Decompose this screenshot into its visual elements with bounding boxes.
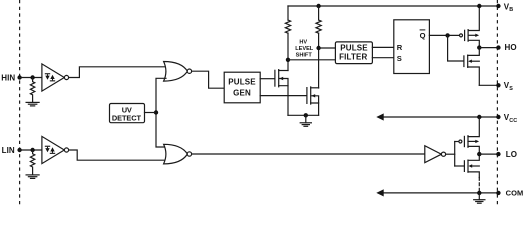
node HO pin [496, 45, 500, 49]
wire R2 to M2 drain node [318, 33, 320, 88]
inverter U2 (low side driver) [425, 146, 446, 163]
wire R1 to M1 drain node [287, 33, 289, 70]
left chip boundary dashed line [19, 0, 21, 205]
arrow VCC left [376, 113, 383, 120]
svg-text:LEVEL: LEVEL [295, 46, 314, 52]
svg-text:LO: LO [506, 150, 517, 159]
wire low N source to COM (dashed) [478, 178, 480, 193]
svg-text:PULSE: PULSE [340, 44, 368, 53]
svg-text:HO: HO [505, 43, 517, 52]
COM rail with arrow [379, 192, 498, 194]
node VB rail / P drain [477, 4, 481, 8]
NOR gate G1 (high side) [164, 62, 192, 82]
ground for level shifters [300, 115, 311, 126]
svg-text:DETECT: DETECT [112, 113, 142, 122]
wire HIN pin to pulldown node [20, 77, 42, 79]
node M1 drain / S-row [286, 58, 290, 62]
svg-text:LIN: LIN [2, 146, 15, 155]
resistor R2 (HV level shift right) [316, 20, 321, 33]
wire PULSE FILTER to latch S [372, 57, 393, 59]
node source rail ground tap [304, 113, 308, 117]
node LIN pin dot [17, 148, 21, 152]
node LO junction [477, 152, 481, 156]
wire UV/nor branch vertical [156, 78, 166, 147]
wire PULSE GEN out A to M1 gate [260, 78, 275, 80]
block PULSE FILTER [335, 42, 372, 64]
VB top rail [288, 5, 498, 7]
resistor R1 (HV level shift left) [285, 20, 290, 33]
node rail dot at R2 [316, 4, 320, 8]
node LO pin [496, 152, 500, 156]
wire PULSE GEN out B to M2 gate [260, 95, 307, 97]
resistor R-HIN pulldown [30, 78, 34, 103]
transistor M2 (level shift) [307, 87, 319, 115]
wire LIN pin to pulldown node [20, 149, 42, 151]
wire NOR2 output to inverter (long) [192, 153, 425, 155]
wire LIN buffer to NOR2 bottom input [69, 150, 166, 160]
wire VS to pin [479, 84, 498, 86]
node M2 drain / R-row [316, 46, 320, 50]
arrow COM left [376, 189, 383, 196]
node HIN pin dot [17, 75, 21, 79]
transistor Q-HO-N (high side N-ch) [464, 48, 479, 86]
NOR gate G2 (low side) [164, 144, 192, 164]
node UV line junction [154, 110, 158, 114]
block RS latch U1 [394, 20, 430, 74]
block PULSE GEN [224, 72, 260, 103]
wire NOR1 output to PULSE GEN [192, 71, 225, 88]
wire low gate column [454, 142, 456, 167]
wire inverter to gate column [446, 153, 455, 155]
node COM ground tap [477, 191, 481, 195]
svg-text:R: R [397, 43, 403, 52]
svg-text:PULSE: PULSE [228, 77, 256, 86]
ground for R-LIN [26, 175, 39, 179]
svg-text:S: S [397, 54, 402, 63]
transistor Q-LO-P (low side P-ch) [459, 117, 479, 154]
wire HIN buffer to NOR1 top input [69, 67, 166, 78]
schmitt buffer LIN input [42, 136, 69, 163]
node VCC pin [496, 115, 500, 119]
wire UV DETECT output [145, 112, 157, 114]
wire PULSE FILTER to latch R [372, 46, 393, 48]
node VS pin [496, 83, 500, 87]
transistor Q-HO-P (high side P-ch) [460, 6, 480, 48]
svg-text:Q: Q [420, 31, 426, 40]
wire S-row to PULSE FILTER [288, 59, 335, 61]
svg-text:HIN: HIN [1, 73, 15, 82]
ground for R-HIN [26, 102, 39, 106]
wire level-shift source rail [288, 114, 319, 116]
svg-text:COM: COM [506, 189, 524, 198]
ground for COM [474, 193, 485, 203]
label HV LEVEL SHIFT [295, 40, 314, 59]
schmitt buffer HIN input [42, 64, 69, 91]
wire to low P gate [455, 141, 459, 143]
node VCC / P drain [477, 115, 481, 119]
node HO junction [477, 45, 481, 49]
resistor R-LIN pulldown [30, 150, 34, 175]
svg-text:GEN: GEN [233, 88, 251, 97]
transistor M1 (level shift) [275, 70, 288, 116]
svg-text:SHIFT: SHIFT [296, 53, 313, 59]
node COM pin [496, 191, 500, 195]
svg-text:FILTER: FILTER [339, 53, 367, 62]
wire rail to R1 [287, 6, 289, 20]
node VB pin [496, 4, 500, 8]
wire HO to pin [479, 47, 498, 49]
wire to low N gate [455, 165, 465, 167]
VCC rail with arrow [379, 116, 498, 118]
svg-text:HV: HV [299, 40, 307, 46]
node LIN pulldown junction [30, 148, 34, 152]
right chip boundary dashed line [496, 0, 498, 205]
node Qbar branch [445, 33, 449, 37]
wire R-row to PULSE FILTER [319, 47, 336, 49]
wire LO to pin [479, 153, 498, 155]
wire Qbar branch to high NMOS gate [448, 35, 464, 61]
node HIN pulldown junction [30, 75, 34, 79]
wire rail to R2 [318, 6, 320, 20]
transistor Q-LO-N (low side N-ch) [464, 154, 479, 177]
wire latch Qbar output [429, 34, 459, 36]
block UV DETECT [110, 104, 145, 123]
